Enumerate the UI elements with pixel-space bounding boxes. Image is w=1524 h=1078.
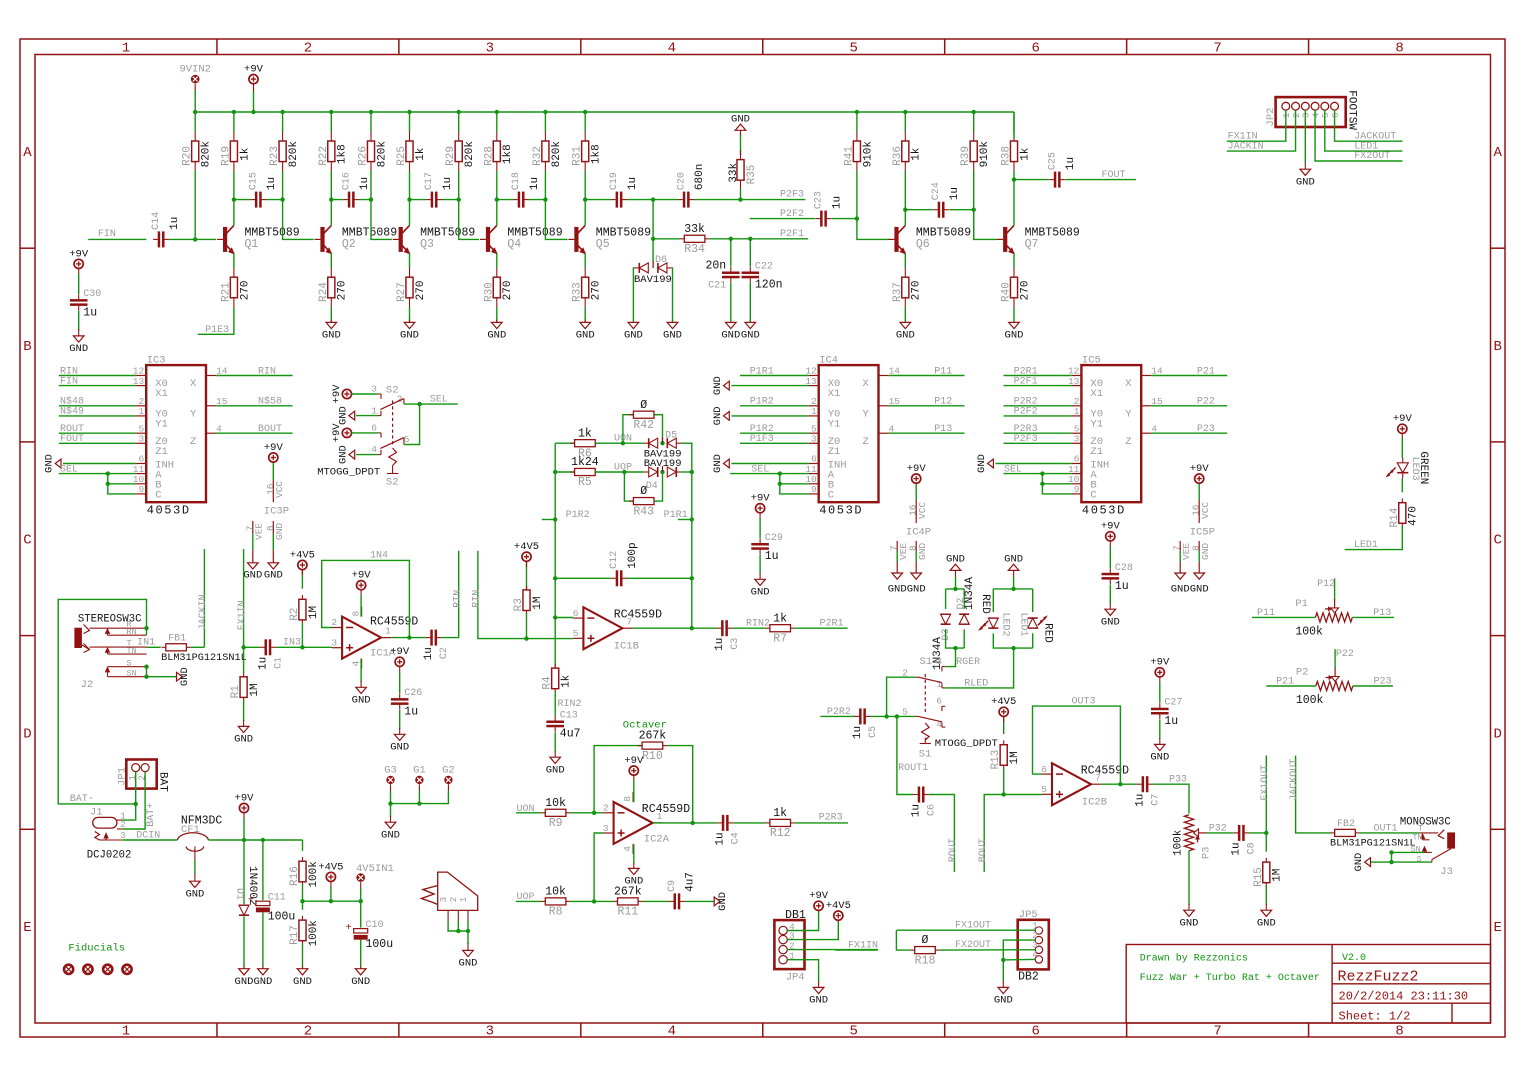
ground	[253, 969, 272, 988]
wire IC4 pin1 GND	[731, 415, 808, 417]
wire diode pair to S1 RGER	[945, 648, 955, 667]
svg-text:P2F3: P2F3	[780, 189, 804, 200]
svg-text:270: 270	[502, 280, 514, 300]
wire R30 to GND	[496, 307, 498, 322]
power +9V symbol +9V	[69, 248, 89, 268]
wire SEL to IC5 B	[1042, 483, 1071, 485]
resistor R32	[532, 132, 563, 172]
svg-text:VCC: VCC	[1200, 502, 1211, 519]
svg-text:MTOGG_DPDT: MTOGG_DPDT	[317, 466, 380, 478]
wire IC3 pin3 FOUT	[59, 442, 136, 444]
svg-text:+9V: +9V	[390, 646, 410, 658]
ground	[293, 969, 312, 988]
svg-text:R9: R9	[549, 817, 563, 830]
svg-text:4: 4	[371, 444, 377, 455]
pin 13 X1	[1068, 376, 1103, 400]
svg-text:RLED: RLED	[964, 678, 988, 689]
svg-text:1u: 1u	[1065, 157, 1077, 170]
wire IC3 pin12 RIN	[59, 375, 136, 377]
fiducial mark	[83, 965, 92, 974]
svg-text:Y1: Y1	[155, 419, 168, 431]
wire C27 to GND	[1159, 719, 1161, 739]
wire SEL to IC4 A	[730, 473, 808, 475]
svg-text:UON: UON	[517, 804, 535, 815]
svg-text:GND: GND	[352, 695, 371, 707]
svg-text:DCJ0202: DCJ0202	[87, 850, 132, 862]
svg-text:S: S	[127, 658, 132, 668]
wire Q6 collector	[904, 210, 906, 226]
wire FB1 to JACKIN	[191, 646, 205, 648]
svg-text:OUT3: OUT3	[1072, 697, 1096, 708]
svg-text:C: C	[1090, 490, 1096, 502]
svg-text:Y1: Y1	[828, 419, 841, 431]
wire IC2A pin4 to GND	[633, 844, 635, 864]
wire G pads to GND	[390, 784, 392, 791]
svg-text:C15: C15	[248, 172, 259, 190]
wire bus corner to R38	[1013, 112, 1015, 138]
svg-text:IC3P: IC3P	[264, 506, 289, 518]
capacitor C13	[546, 711, 580, 741]
wire R26 to node	[370, 171, 372, 200]
pin 12 X0	[805, 366, 840, 390]
wire R32 to node	[544, 171, 546, 200]
power +4V5 node symbol	[330, 882, 332, 888]
wire +9V to LED3	[1401, 438, 1403, 458]
ground	[1353, 853, 1370, 872]
svg-text:R21: R21	[220, 282, 232, 302]
pin 1 Y1	[809, 406, 841, 430]
svg-text:C6: C6	[927, 804, 938, 816]
wire C29 to GND	[759, 555, 761, 574]
wire R15 to GND	[1265, 885, 1267, 905]
wire +9V to C30	[78, 269, 80, 275]
capacitor C3	[714, 620, 741, 651]
resistor R10	[638, 730, 667, 763]
svg-text:100k: 100k	[1295, 625, 1323, 638]
pin 9 C	[136, 484, 161, 502]
wire R8 to R11	[570, 900, 613, 902]
ground	[731, 113, 750, 130]
svg-text:SEL: SEL	[430, 394, 448, 405]
ground	[177, 667, 192, 686]
svg-text:P2F1: P2F1	[780, 229, 804, 240]
svg-text:+4V5: +4V5	[318, 861, 343, 873]
svg-text:P1R1: P1R1	[750, 366, 774, 377]
wire IC3 out RIN	[216, 375, 293, 377]
svg-text:FB2: FB2	[1337, 819, 1355, 830]
svg-text:C25: C25	[1047, 152, 1058, 170]
svg-text:1u: 1u	[765, 550, 779, 563]
power +9V symbol +9V	[1393, 413, 1413, 433]
svg-text:+9V: +9V	[1393, 413, 1413, 425]
power +9V node	[243, 813, 245, 818]
svg-text:R32: R32	[532, 146, 544, 166]
svg-text:3: 3	[1302, 113, 1312, 118]
resistor R21	[220, 268, 251, 308]
wire base link	[545, 200, 567, 240]
ground	[69, 336, 88, 355]
svg-text:1k: 1k	[239, 147, 251, 161]
resistor R30	[483, 268, 514, 308]
svg-text:2: 2	[449, 897, 459, 902]
wire C10 to GND	[360, 940, 362, 967]
wire JP2 pin6 JACKOUT	[1335, 110, 1403, 141]
svg-text:1u: 1u	[627, 177, 639, 190]
wire S2 pin5 to SEL	[404, 404, 420, 444]
resistor R33	[572, 268, 603, 308]
wire SEL to IC5 A	[1004, 473, 1072, 475]
svg-text:GND: GND	[1004, 553, 1023, 565]
power +9V symbol +9V	[390, 646, 410, 666]
wire IC5 pin13 P2F1	[1004, 385, 1072, 387]
svg-text:P13: P13	[1373, 608, 1391, 619]
svg-text:RC4559D: RC4559D	[370, 615, 418, 628]
svg-text:C26: C26	[404, 688, 422, 699]
wire D6 left to GND	[633, 268, 634, 323]
svg-text:R3: R3	[513, 598, 525, 611]
svg-text:Q5: Q5	[596, 238, 610, 251]
wire to D2	[963, 589, 965, 609]
svg-text:R16: R16	[289, 866, 301, 886]
svg-text:1: 1	[371, 405, 377, 416]
svg-text:R11: R11	[617, 906, 638, 919]
svg-text:+9V: +9V	[331, 384, 343, 404]
resistor R35	[728, 150, 758, 190]
wire IC5 pin3 P2F3	[1004, 442, 1072, 444]
svg-text:RIN: RIN	[452, 590, 463, 608]
wire R6 to D5	[595, 442, 644, 444]
wire JP2 pin2 JACKIN	[1227, 110, 1296, 151]
diode D5	[644, 437, 681, 448]
wire rail to C12	[555, 577, 611, 579]
svg-text:Ø: Ø	[922, 934, 929, 947]
svg-text:RIN: RIN	[472, 590, 483, 608]
pin 2 Y0	[809, 396, 841, 420]
svg-text:1u: 1u	[852, 726, 864, 739]
wire collector/cap row stage1-5	[234, 199, 283, 201]
pin 6 INH	[1071, 454, 1109, 472]
wire +4V5 node	[303, 900, 361, 902]
resistor R38	[1001, 132, 1032, 172]
wire emitter Q6	[904, 253, 906, 268]
svg-text:1: 1	[122, 41, 130, 57]
svg-text:DCIN: DCIN	[136, 830, 160, 841]
wire FX1IN	[243, 549, 245, 647]
LED3 GREEN	[1386, 451, 1429, 484]
resistor R22	[318, 132, 349, 172]
svg-text:Z1: Z1	[155, 446, 168, 458]
wire IC1A out	[391, 637, 426, 639]
resistor R9	[541, 797, 570, 830]
pin 13 X1	[133, 376, 168, 400]
svg-text:GND: GND	[624, 330, 643, 342]
pin 11 A	[1068, 464, 1097, 482]
svg-text:G1: G1	[413, 764, 426, 776]
IC4P power symbol	[906, 483, 931, 538]
wire emitter Q1 to R21	[233, 253, 235, 268]
svg-text:C10: C10	[366, 920, 384, 931]
wire IC5 pin1 P2F2	[1004, 415, 1072, 417]
svg-text:IN3: IN3	[283, 638, 301, 649]
svg-text:1M: 1M	[1009, 751, 1021, 764]
wire to Q6 base	[857, 219, 889, 240]
svg-text:J3: J3	[1440, 866, 1453, 878]
svg-text:BAV199: BAV199	[634, 274, 672, 286]
capacitor C22	[742, 262, 783, 292]
svg-text:Ø: Ø	[640, 399, 647, 412]
svg-text:6: 6	[1041, 764, 1047, 775]
svg-text:JP4: JP4	[786, 971, 805, 983]
pin 3 Z1	[1071, 434, 1103, 458]
svg-text:RED: RED	[1042, 623, 1054, 643]
svg-text:GND: GND	[731, 113, 750, 125]
wire P2R2	[820, 715, 854, 717]
resistor R5	[570, 456, 599, 489]
svg-text:6: 6	[1331, 113, 1341, 118]
wire C4 to R12	[733, 822, 765, 824]
svg-text:GND: GND	[1353, 853, 1365, 872]
wire collector Q4	[496, 200, 498, 226]
pin 1 Y1	[1071, 406, 1103, 430]
svg-text:120n: 120n	[755, 279, 783, 292]
svg-text:GND: GND	[1257, 918, 1276, 930]
wire P2F2	[750, 218, 816, 220]
wire C1 to IC1A pin3	[276, 646, 332, 648]
wire J3 SN-S link	[1391, 852, 1393, 862]
wire LED pair to S1 RLED	[945, 648, 1013, 688]
wire R23 to node	[282, 171, 284, 200]
svg-text:IC2A: IC2A	[644, 834, 670, 846]
svg-text:R29: R29	[445, 146, 457, 166]
svg-text:IC4: IC4	[819, 354, 838, 366]
resistor R25	[396, 132, 427, 172]
pin 11 A	[805, 464, 834, 482]
svg-text:680n: 680n	[694, 164, 706, 190]
svg-text:TN: TN	[127, 646, 137, 656]
svg-text:GREEN: GREEN	[1417, 451, 1429, 484]
ground	[741, 322, 760, 341]
svg-text:R34: R34	[684, 243, 705, 256]
svg-text:R12: R12	[770, 827, 791, 840]
svg-text:1k: 1k	[561, 674, 573, 688]
IC IC3	[146, 354, 206, 517]
svg-text:10k: 10k	[545, 797, 566, 810]
capacitor C14	[151, 212, 181, 248]
svg-text:20/2/2014 23:11:30: 20/2/2014 23:11:30	[1339, 990, 1469, 1004]
wire corner to R16	[302, 840, 304, 851]
svg-text:1: 1	[936, 679, 942, 690]
wire SEL to IC4 C	[780, 474, 809, 494]
resistor R27	[396, 268, 427, 308]
diode D6	[635, 262, 672, 273]
svg-text:GND: GND	[1180, 918, 1199, 930]
svg-text:GND: GND	[185, 889, 204, 901]
svg-text:9: 9	[1074, 484, 1080, 495]
wire +9V to IC1A pin8	[360, 595, 362, 617]
wire R7 to P2R1	[795, 627, 848, 629]
svg-text:D: D	[23, 726, 31, 742]
resistor R2	[289, 595, 320, 624]
svg-text:20n: 20n	[705, 260, 726, 273]
ground	[663, 322, 682, 341]
wire JP2 pin1 FX1IN	[1227, 110, 1286, 141]
wire bus to R26	[370, 112, 372, 132]
svg-text:100p: 100p	[627, 542, 639, 568]
ground	[1296, 169, 1315, 188]
wire LED3 to R14	[1401, 478, 1403, 492]
wire JP5 pin4 to GND node	[1003, 958, 1035, 961]
wire R37 to GND	[904, 307, 906, 322]
wire R4 to C13	[554, 691, 556, 716]
svg-text:1: 1	[811, 406, 817, 417]
svg-text:TN: TN	[1412, 833, 1422, 843]
svg-text:GND: GND	[976, 454, 988, 473]
junctions on +9V bus	[193, 110, 197, 114]
resistor R1	[230, 673, 261, 702]
wire GND to diode pair	[955, 577, 957, 589]
wire to C11	[262, 840, 264, 900]
svg-text:C27: C27	[1164, 698, 1182, 709]
svg-text:GND: GND	[390, 742, 409, 754]
svg-text:R15: R15	[1253, 867, 1265, 887]
wire IC4 out P13	[889, 432, 965, 434]
wire bus to R25	[409, 112, 411, 132]
svg-text:5: 5	[573, 628, 579, 639]
svg-text:IC5: IC5	[1082, 354, 1101, 366]
svg-text:VCC: VCC	[274, 481, 285, 498]
svg-text:C28: C28	[1115, 563, 1133, 574]
capacitor C8	[1231, 825, 1258, 856]
wire JACKIN	[203, 549, 205, 647]
svg-text:3: 3	[486, 41, 494, 57]
svg-text:C18: C18	[511, 172, 522, 190]
svg-text:Fuzz War + Turbo Rat + Octaver: Fuzz War + Turbo Rat + Octaver	[1140, 972, 1320, 984]
wire bus to R19	[233, 112, 235, 132]
capacitor C26	[391, 688, 422, 718]
svg-text:C5: C5	[868, 726, 879, 738]
switch S2 MTOGG_DPDT	[317, 384, 410, 489]
wire node to GND	[1002, 960, 1004, 982]
svg-text:MTOGG_DPDT: MTOGG_DPDT	[935, 738, 998, 750]
svg-text:FOOTSW: FOOTSW	[1346, 90, 1358, 130]
svg-text:D6: D6	[655, 255, 667, 266]
wire top of LEDs	[993, 588, 1032, 590]
svg-text:R35: R35	[746, 165, 758, 185]
wire R19 to node	[233, 171, 235, 200]
svg-text:1: 1	[138, 406, 144, 417]
wire to LED2	[992, 589, 994, 612]
resistor R34	[680, 223, 709, 256]
wire J2 R-RN link	[146, 628, 148, 635]
wire C28 to GND	[1109, 585, 1111, 605]
diode D2 1N34A	[959, 613, 969, 615]
svg-text:P1R1: P1R1	[664, 510, 688, 521]
capacitor C7	[1134, 776, 1161, 807]
diode D4	[644, 466, 681, 477]
svg-text:VEE: VEE	[254, 523, 265, 540]
svg-text:Q1: Q1	[245, 238, 259, 251]
svg-text:1N4: 1N4	[370, 551, 388, 562]
svg-text:JACKOUT: JACKOUT	[1354, 131, 1396, 142]
wire P13	[1352, 616, 1394, 618]
wire IC2B out	[1101, 783, 1137, 785]
ground	[44, 454, 61, 473]
svg-text:P33: P33	[1169, 775, 1187, 786]
svg-text:Octaver: Octaver	[623, 719, 667, 731]
pin 15 Y	[863, 396, 901, 420]
wire R11 to C9	[642, 900, 669, 902]
diode D3 1N34A	[941, 623, 951, 625]
svg-text:5: 5	[1041, 784, 1047, 795]
svg-text:1u: 1u	[949, 187, 961, 200]
ground	[390, 734, 409, 753]
svg-text:270: 270	[1019, 280, 1031, 300]
svg-text:IC1B: IC1B	[614, 641, 639, 653]
svg-text:P3: P3	[1201, 846, 1213, 859]
capacitor C29	[751, 533, 782, 563]
svg-text:820k: 820k	[464, 141, 476, 168]
wire emitter Q5 to R33	[584, 253, 586, 268]
svg-text:GND: GND	[1200, 543, 1211, 560]
svg-text:R24: R24	[318, 282, 330, 302]
svg-text:RC4559D: RC4559D	[1081, 764, 1129, 777]
svg-text:R39: R39	[960, 146, 972, 166]
LED1 RED	[1028, 617, 1038, 619]
svg-text:GND: GND	[293, 976, 312, 988]
pin 11 A	[133, 464, 162, 482]
ground	[352, 687, 371, 706]
svg-text:820k: 820k	[376, 141, 388, 168]
wire +4V5 to R2	[301, 570, 303, 589]
svg-text:R22: R22	[318, 146, 330, 166]
svg-text:+4V5: +4V5	[514, 541, 539, 553]
svg-text:X1: X1	[155, 388, 168, 400]
wire R1 to GND	[243, 700, 245, 721]
svg-text:C14: C14	[151, 212, 162, 230]
svg-text:ROUT1: ROUT1	[898, 763, 928, 774]
pin 13 X1	[805, 376, 840, 400]
svg-text:GND: GND	[381, 830, 400, 842]
svg-text:FB1: FB1	[168, 633, 186, 644]
wire feedback right	[667, 746, 693, 822]
power +9V symbol +4V5	[318, 861, 343, 881]
wire jack pin2	[457, 921, 459, 931]
capacitor C30	[70, 289, 101, 319]
svg-text:C9: C9	[667, 880, 678, 892]
fiducial mark	[103, 965, 112, 974]
wire C24 to R39 col	[949, 209, 973, 211]
svg-text:R13: R13	[990, 750, 1002, 770]
power +9V symbol +9V	[624, 755, 644, 775]
svg-text:S2: S2	[386, 476, 399, 488]
op-amp IC2B	[1041, 763, 1101, 805]
wire J2 tip IN1	[147, 646, 161, 648]
svg-text:MONOSW3C: MONOSW3C	[1400, 817, 1451, 829]
svg-text:GND: GND	[741, 330, 760, 342]
capacitor C24	[931, 182, 961, 218]
svg-text:+9V: +9V	[235, 792, 255, 804]
wire C23 to R41 col	[832, 218, 857, 220]
capacitor C1	[257, 639, 284, 670]
wire P21	[1266, 685, 1316, 687]
wire LED2 bottom	[993, 633, 1032, 648]
wire IC5 pin12 P2R1	[1004, 375, 1072, 377]
capacitor C15	[248, 172, 278, 208]
wire UON	[516, 812, 541, 814]
svg-text:Z: Z	[190, 436, 196, 448]
svg-text:C: C	[1493, 533, 1501, 549]
resistor R36	[892, 132, 923, 172]
